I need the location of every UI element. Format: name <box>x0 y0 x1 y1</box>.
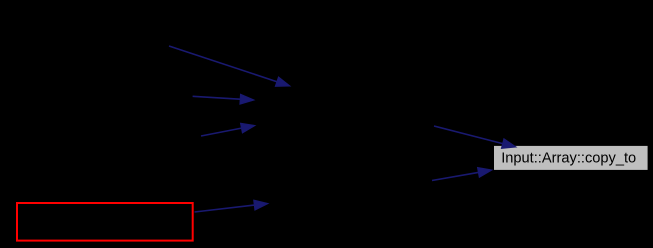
svg-text:Input::Array::copy_to: Input::Array::copy_to <box>501 149 636 166</box>
